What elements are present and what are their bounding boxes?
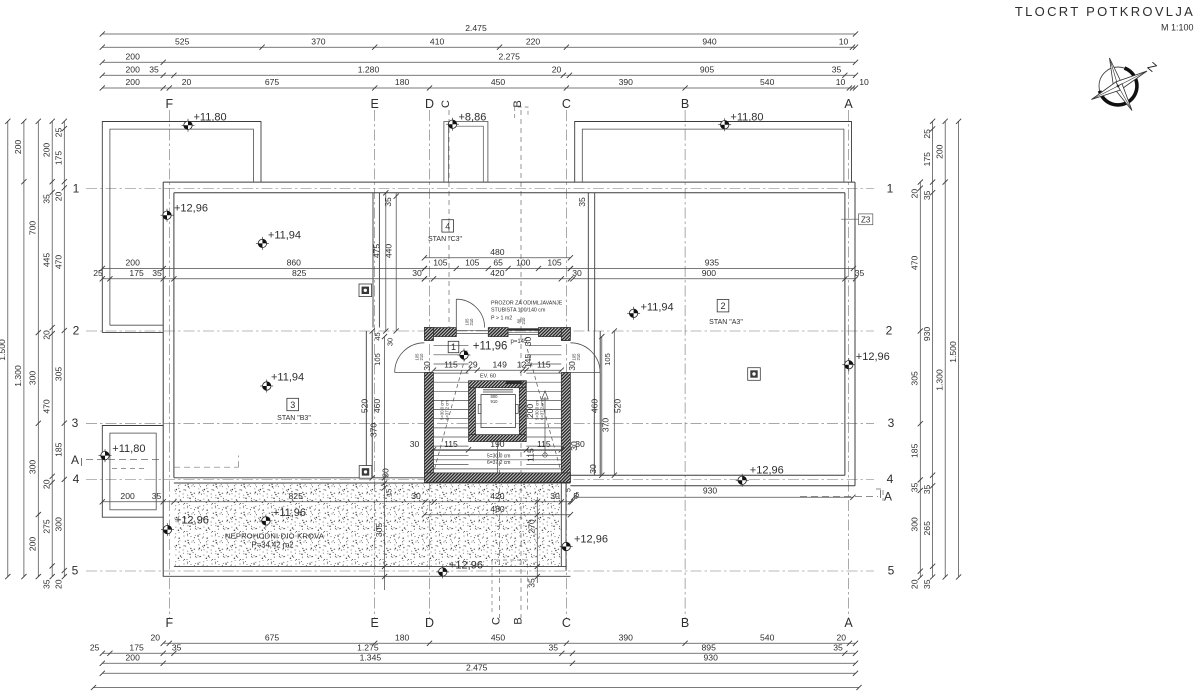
elevator counterweight bar bbox=[506, 381, 521, 384]
svg-text:NEPROHODNI DIO KROVA: NEPROHODNI DIO KROVA bbox=[225, 532, 325, 541]
svg-text:370: 370 bbox=[311, 36, 326, 46]
svg-text:E: E bbox=[371, 97, 379, 111]
hall dim row 115/29/149/12/145/115 bbox=[431, 359, 564, 372]
svg-text:1.275: 1.275 bbox=[357, 643, 379, 653]
svg-text:1: 1 bbox=[451, 342, 456, 352]
svg-text:470: 470 bbox=[910, 256, 920, 271]
small top dormer at axis C outer bbox=[444, 122, 488, 183]
roof access box symbol bbox=[359, 284, 372, 297]
svg-text:20: 20 bbox=[182, 77, 192, 87]
svg-text:20: 20 bbox=[837, 633, 847, 643]
window in core top wall (smoke vent) with jambs bbox=[455, 328, 457, 337]
svg-text:480: 480 bbox=[490, 247, 505, 257]
svg-text:C: C bbox=[440, 100, 452, 108]
svg-text:35: 35 bbox=[922, 190, 932, 200]
svg-text:35: 35 bbox=[41, 194, 51, 204]
elevator car guides bbox=[478, 405, 481, 414]
top-middle dormer outer outline bbox=[575, 122, 852, 183]
svg-text:D: D bbox=[425, 616, 434, 630]
svg-text:2: 2 bbox=[886, 324, 893, 338]
hall 1 label bbox=[448, 341, 459, 352]
svg-text:900: 900 bbox=[702, 268, 717, 278]
left dim chain 200/35/445/20/470/20/275/35 bbox=[41, 119, 54, 589]
svg-text:25: 25 bbox=[54, 128, 64, 138]
svg-text:35: 35 bbox=[922, 579, 932, 589]
elevation marker +12,96 bbox=[736, 465, 784, 487]
svg-text:390: 390 bbox=[619, 633, 634, 643]
svg-text:15: 15 bbox=[385, 489, 394, 497]
top dim chain row 200/20/675/180/450/390/540/10/10 bbox=[100, 77, 869, 90]
dim row 25/175/35/825 left bbox=[93, 268, 427, 281]
stippled NEPROHODNI DIO KROVA area bbox=[175, 484, 561, 566]
svg-text:+8,86: +8,86 bbox=[459, 112, 487, 124]
svg-text:450: 450 bbox=[491, 77, 506, 87]
svg-text:300: 300 bbox=[28, 460, 38, 475]
svg-text:10: 10 bbox=[836, 77, 846, 87]
top-left dormer inner outline bbox=[110, 129, 254, 182]
svg-text:200: 200 bbox=[28, 537, 38, 552]
svg-text:+11,96: +11,96 bbox=[273, 507, 306, 519]
roof access box symbol bbox=[748, 368, 761, 381]
svg-text:35: 35 bbox=[832, 65, 842, 75]
svg-text:4: 4 bbox=[445, 221, 450, 231]
svg-text:1.500: 1.500 bbox=[948, 341, 958, 363]
svg-text:200: 200 bbox=[126, 52, 141, 62]
partition wall right upper part bbox=[587, 193, 589, 331]
partition wall left lower part bbox=[365, 331, 367, 478]
left dim chain 25/175/20/470/305/185/300/20 bbox=[54, 119, 67, 589]
door swing arc into apartment 3 (left) bbox=[395, 343, 425, 373]
svg-text:25: 25 bbox=[93, 268, 103, 278]
svg-text:A: A bbox=[844, 616, 853, 630]
svg-text:6=37,2 cm: 6=37,2 cm bbox=[540, 400, 545, 420]
svg-text:E: E bbox=[371, 616, 379, 630]
svg-text:25: 25 bbox=[922, 129, 932, 139]
svg-text:105: 105 bbox=[373, 353, 382, 366]
svg-text:30: 30 bbox=[381, 468, 391, 478]
svg-text:C: C bbox=[562, 616, 571, 630]
svg-text:B: B bbox=[512, 617, 524, 624]
svg-text:P=34,42 m2: P=34,42 m2 bbox=[251, 541, 293, 550]
svg-text:A: A bbox=[844, 97, 853, 111]
section line A left bbox=[86, 459, 160, 461]
svg-text:200: 200 bbox=[41, 143, 51, 158]
vertical dim 460/370 left lower bbox=[384, 337, 386, 478]
svg-text:525: 525 bbox=[175, 36, 190, 46]
svg-text:35: 35 bbox=[577, 197, 587, 207]
svg-text:P > 1 m2: P > 1 m2 bbox=[491, 316, 512, 322]
svg-text:190: 190 bbox=[490, 439, 505, 449]
svg-text:420: 420 bbox=[490, 491, 505, 501]
svg-text:+11,80: +11,80 bbox=[730, 111, 763, 123]
svg-text:825: 825 bbox=[289, 491, 304, 501]
left side dormer inner outline bbox=[110, 433, 156, 510]
svg-text:+12,96: +12,96 bbox=[174, 203, 208, 215]
svg-text:930: 930 bbox=[922, 327, 932, 342]
svg-text:210: 210 bbox=[419, 353, 424, 361]
svg-text:105: 105 bbox=[547, 258, 562, 268]
svg-text:860: 860 bbox=[287, 258, 302, 268]
svg-text:+11,96: +11,96 bbox=[473, 340, 508, 352]
svg-text:PROZOR ZA ODIMLJAVANJE: PROZOR ZA ODIMLJAVANJE bbox=[491, 301, 563, 307]
elevation marker +11,94 bbox=[256, 230, 301, 250]
svg-text:35: 35 bbox=[152, 268, 162, 278]
left wall inner face bbox=[173, 193, 175, 478]
svg-text:370: 370 bbox=[600, 418, 610, 433]
svg-text:300: 300 bbox=[28, 371, 38, 386]
svg-text:480: 480 bbox=[490, 504, 505, 514]
roof terrace band top edge lines bbox=[174, 477, 561, 479]
svg-text:29: 29 bbox=[468, 359, 478, 369]
elevation marker +12,96 bbox=[161, 203, 208, 222]
svg-text:10: 10 bbox=[839, 36, 849, 46]
roof access box symbol bbox=[359, 466, 372, 479]
elevation marker +11,94 bbox=[627, 302, 674, 320]
stair cut line left flight (dashed) bbox=[435, 349, 468, 469]
svg-text:3: 3 bbox=[888, 416, 895, 430]
svg-text:20: 20 bbox=[151, 633, 161, 643]
right dim chain 20/470/305/185/35/300/20 bbox=[910, 180, 923, 590]
svg-text:390: 390 bbox=[619, 77, 634, 87]
svg-text:30: 30 bbox=[569, 441, 579, 451]
right wall outer face bbox=[854, 182, 856, 486]
door swing arc into apartment 2 (right) bbox=[570, 343, 600, 373]
svg-text:30: 30 bbox=[550, 491, 560, 501]
dim 930 bottom right part bbox=[574, 496, 853, 498]
svg-text:35: 35 bbox=[910, 483, 920, 493]
svg-text:175: 175 bbox=[922, 152, 932, 167]
window mark Z3 bbox=[859, 214, 873, 225]
svg-text:940: 940 bbox=[702, 36, 717, 46]
svg-text:+11,94: +11,94 bbox=[641, 302, 674, 314]
apartment 4 label bbox=[442, 220, 454, 232]
svg-text:520: 520 bbox=[360, 399, 370, 414]
dim row 200/860 left bbox=[100, 258, 427, 271]
svg-text:910: 910 bbox=[491, 399, 499, 404]
svg-text:20: 20 bbox=[54, 192, 64, 202]
svg-text:B: B bbox=[681, 616, 689, 630]
svg-text:115: 115 bbox=[526, 448, 536, 462]
svg-text:210: 210 bbox=[521, 317, 526, 325]
svg-text:A: A bbox=[71, 453, 79, 467]
svg-text:35: 35 bbox=[152, 491, 162, 501]
stair mid landing division bbox=[496, 442, 498, 473]
svg-text:STAN "C3": STAN "C3" bbox=[428, 236, 463, 243]
top dim chain total 2.475 bbox=[100, 23, 858, 36]
svg-text:D: D bbox=[425, 97, 434, 111]
vertical dim 460/520 right of core bbox=[601, 337, 603, 476]
elevation marker +12,96 bbox=[560, 534, 608, 554]
svg-text:115: 115 bbox=[537, 359, 551, 369]
dim 480 over core bbox=[422, 247, 573, 260]
bottom frame line bbox=[94, 687, 860, 689]
vertical dim 440 left bbox=[395, 193, 397, 331]
svg-text:180: 180 bbox=[395, 633, 410, 643]
vertical dim 305/15 in band bbox=[384, 478, 386, 590]
svg-text:175: 175 bbox=[129, 268, 144, 278]
svg-text:200: 200 bbox=[934, 144, 944, 159]
svg-text:30: 30 bbox=[412, 268, 422, 278]
svg-text:450: 450 bbox=[491, 633, 506, 643]
svg-text:470: 470 bbox=[41, 399, 51, 414]
bottom dim chain 20/675/180/450/390/540/20 bbox=[151, 633, 859, 646]
secondary axis B (dashed) bbox=[520, 110, 522, 618]
svg-text:30: 30 bbox=[588, 464, 598, 474]
svg-text:C: C bbox=[562, 97, 571, 111]
apartment 2 label bbox=[717, 300, 729, 312]
svg-text:460: 460 bbox=[372, 399, 382, 414]
right dim chain 200/1.300 bbox=[934, 119, 947, 580]
door opening jambs core left wall bbox=[424, 340, 433, 342]
svg-text:+12,96: +12,96 bbox=[750, 465, 784, 477]
svg-text:+12,96: +12,96 bbox=[449, 560, 483, 572]
svg-text:675: 675 bbox=[265, 633, 280, 643]
svg-text:185: 185 bbox=[910, 443, 920, 458]
svg-text:F: F bbox=[165, 97, 173, 111]
svg-text:265: 265 bbox=[922, 521, 932, 536]
dim row 900/35 right bbox=[570, 268, 864, 281]
svg-text:200: 200 bbox=[126, 65, 141, 75]
elevation marker +11,80 bbox=[182, 112, 227, 132]
svg-text:175: 175 bbox=[129, 643, 144, 653]
section line A right bbox=[800, 496, 878, 498]
svg-text:105: 105 bbox=[603, 353, 612, 366]
svg-text:4: 4 bbox=[73, 472, 80, 486]
svg-text:475: 475 bbox=[371, 244, 381, 259]
svg-text:STUBISTA 100/140 cm: STUBISTA 100/140 cm bbox=[491, 308, 546, 314]
top dim chain row 525/370/410/220/940/10 bbox=[100, 36, 858, 49]
left dim chain total 1.500 bbox=[0, 119, 10, 580]
svg-text:20: 20 bbox=[910, 579, 920, 589]
svg-text:2: 2 bbox=[73, 324, 80, 338]
svg-text:30: 30 bbox=[572, 268, 582, 278]
svg-text:300: 300 bbox=[54, 517, 64, 532]
svg-text:175: 175 bbox=[54, 151, 64, 166]
svg-text:20: 20 bbox=[910, 189, 920, 199]
dashed dormer outline below plan at C/B bbox=[492, 560, 528, 612]
svg-text:+12,96: +12,96 bbox=[574, 534, 608, 546]
svg-text:A: A bbox=[884, 490, 892, 504]
svg-text:20: 20 bbox=[41, 479, 51, 489]
top-left dormer outer outline bbox=[102, 122, 261, 183]
svg-text:540: 540 bbox=[760, 77, 775, 87]
svg-text:115: 115 bbox=[444, 439, 458, 449]
svg-text:+11,80: +11,80 bbox=[194, 112, 227, 124]
svg-text:35: 35 bbox=[549, 643, 559, 653]
stair cut line right flight (dashed) bbox=[527, 349, 560, 469]
section A trace through dormer (dashed) bbox=[112, 468, 146, 470]
door swing arc into apartment 4 bbox=[456, 299, 484, 327]
svg-text:935: 935 bbox=[705, 258, 720, 268]
dashed skylight outline below top letters bbox=[515, 107, 528, 118]
svg-text:35: 35 bbox=[833, 643, 843, 653]
svg-text:905: 905 bbox=[700, 65, 715, 75]
svg-text:270: 270 bbox=[527, 519, 537, 534]
roof terrace band right edge bbox=[560, 478, 562, 567]
svg-text:45: 45 bbox=[373, 332, 382, 340]
svg-text:930: 930 bbox=[703, 486, 718, 496]
window 2 in core top wall with dark lintel bbox=[508, 328, 538, 330]
right dim chain total 1.500 bbox=[948, 119, 961, 580]
svg-text:895: 895 bbox=[702, 643, 717, 653]
svg-text:30: 30 bbox=[410, 439, 420, 449]
svg-text:149: 149 bbox=[493, 359, 508, 369]
svg-text:145: 145 bbox=[523, 354, 533, 369]
svg-text:1.300: 1.300 bbox=[13, 365, 23, 387]
elevation marker +8,86 bbox=[446, 112, 486, 131]
north arrow compass bbox=[1092, 58, 1160, 111]
left dim chain 200/1.300 bbox=[13, 119, 26, 580]
stair treads right flight bbox=[526, 346, 561, 465]
svg-text:35: 35 bbox=[149, 65, 159, 75]
svg-text:210: 210 bbox=[576, 353, 581, 361]
elevation marker +12,96 bbox=[842, 351, 889, 371]
section A trace jog in apartment 3 (dashed) bbox=[174, 466, 239, 468]
bottom dim chain 25/175/35/1.275/35/895/35 bbox=[90, 643, 858, 656]
horizontal grid axes 1-5 (dash-dot) bbox=[86, 188, 874, 190]
svg-text:B: B bbox=[681, 97, 689, 111]
vertical grid axes F E D C B A (dash-dot) bbox=[168, 110, 170, 618]
svg-text:+11,94: +11,94 bbox=[271, 372, 304, 384]
svg-text:1.500: 1.500 bbox=[0, 339, 7, 361]
apartment 3 label bbox=[287, 398, 299, 410]
bottom wall right part inner face bbox=[570, 474, 845, 476]
svg-text:+12,96: +12,96 bbox=[175, 515, 209, 527]
svg-text:1.280: 1.280 bbox=[358, 65, 380, 75]
svg-text:440: 440 bbox=[384, 244, 394, 259]
elevation marker bbox=[458, 349, 471, 362]
stair treads left flight bbox=[434, 346, 469, 465]
svg-text:35: 35 bbox=[527, 578, 537, 588]
svg-text:20: 20 bbox=[41, 330, 51, 340]
svg-text:305: 305 bbox=[910, 371, 920, 386]
left dim chain 700/300/300/200 bbox=[28, 119, 41, 580]
svg-text:20: 20 bbox=[54, 579, 64, 589]
svg-text:420: 420 bbox=[490, 268, 505, 278]
svg-text:105: 105 bbox=[433, 258, 448, 268]
main top wall outer face bbox=[163, 181, 855, 183]
elevation marker +11,80 bbox=[99, 443, 146, 462]
svg-text:2.475: 2.475 bbox=[465, 23, 487, 33]
roof terrace band bottom edge bbox=[174, 565, 566, 567]
right wall inner face bbox=[844, 193, 846, 475]
bottom dim chain 200/1.345/930 bbox=[100, 653, 858, 666]
svg-text:35: 35 bbox=[41, 579, 51, 589]
svg-text:35: 35 bbox=[172, 643, 182, 653]
vertical dim 475 left bbox=[385, 193, 387, 331]
svg-text:Z3: Z3 bbox=[861, 215, 871, 224]
svg-text:5: 5 bbox=[72, 564, 79, 578]
svg-text:410: 410 bbox=[430, 36, 445, 46]
stair walking line with arrow bbox=[544, 397, 546, 455]
svg-text:1.345: 1.345 bbox=[360, 653, 382, 663]
svg-text:EV. 60: EV. 60 bbox=[480, 374, 496, 380]
dim row under shaft 30/115/190/115/30 bbox=[410, 439, 585, 452]
left lower-roof strip inner bbox=[109, 182, 111, 325]
svg-text:105: 105 bbox=[465, 258, 480, 268]
svg-text:700: 700 bbox=[28, 221, 38, 236]
stair treads bottom flight bbox=[434, 451, 562, 469]
left wall outer face bbox=[162, 182, 164, 576]
svg-text:210: 210 bbox=[469, 318, 474, 326]
svg-text:35: 35 bbox=[922, 485, 932, 495]
svg-text:930: 930 bbox=[704, 653, 719, 663]
svg-text:35: 35 bbox=[383, 197, 393, 207]
svg-text:6=37,2 cm: 6=37,2 cm bbox=[445, 400, 450, 420]
left lower-roof strip outer bbox=[101, 182, 103, 333]
svg-text:65: 65 bbox=[493, 258, 503, 268]
svg-text:370: 370 bbox=[369, 423, 379, 438]
svg-text:460: 460 bbox=[589, 399, 599, 414]
svg-text:275: 275 bbox=[41, 519, 51, 534]
secondary axis C bottom (dashed) bbox=[499, 452, 501, 618]
svg-text:C: C bbox=[491, 617, 503, 625]
top dim chain row 200/2.275 bbox=[100, 52, 858, 65]
bottom wall right part outer face bbox=[570, 485, 855, 487]
svg-text:30: 30 bbox=[567, 361, 577, 371]
svg-text:2.475: 2.475 bbox=[466, 663, 488, 673]
svg-text:+11,94: +11,94 bbox=[268, 230, 301, 242]
elevation marker +12,96 bbox=[436, 560, 483, 579]
vertical dim 270/35 right of band bbox=[536, 497, 538, 583]
svg-text:30: 30 bbox=[386, 338, 395, 346]
svg-text:185: 185 bbox=[54, 442, 64, 457]
svg-text:470: 470 bbox=[54, 255, 64, 270]
svg-text:540: 540 bbox=[760, 633, 775, 643]
dim row 935 right bbox=[568, 258, 856, 271]
svg-text:p=145: p=145 bbox=[511, 339, 529, 345]
svg-text:1.300: 1.300 bbox=[934, 369, 944, 391]
partition wall on axis E upper part bbox=[372, 193, 374, 328]
dim row 200/35/825/30/420/30/5 through terrace band bbox=[100, 491, 579, 504]
main top wall inner face bbox=[174, 192, 845, 194]
svg-text:200: 200 bbox=[126, 653, 141, 663]
svg-text:200: 200 bbox=[13, 140, 23, 155]
svg-text:1: 1 bbox=[887, 182, 894, 196]
svg-text:TLOCRT POTKROVLJA: TLOCRT POTKROVLJA bbox=[1015, 4, 1195, 19]
svg-text:M 1:100: M 1:100 bbox=[1161, 23, 1194, 33]
svg-text:4: 4 bbox=[887, 472, 894, 486]
bottom dim chain total 2.475 bbox=[100, 663, 858, 676]
svg-text:3: 3 bbox=[290, 400, 295, 410]
svg-text:F: F bbox=[165, 616, 173, 630]
svg-text:25: 25 bbox=[90, 643, 100, 653]
svg-text:200: 200 bbox=[126, 258, 141, 268]
left side dormer outer outline bbox=[102, 426, 163, 518]
secondary axis C top (dashed) bbox=[448, 110, 450, 330]
svg-text:520: 520 bbox=[613, 399, 623, 414]
elevation marker +12,96 bbox=[161, 515, 209, 537]
svg-text:5: 5 bbox=[888, 564, 895, 578]
svg-text:305: 305 bbox=[54, 367, 64, 382]
building bottom outer edge at grid5 bbox=[163, 575, 570, 577]
partition wall right lower part bbox=[593, 331, 595, 475]
right dim chain 35/930/35/265/35 bbox=[922, 119, 935, 589]
elevation marker +11,96 bbox=[259, 507, 306, 527]
svg-text:B: B bbox=[512, 100, 524, 107]
svg-text:5: 5 bbox=[566, 488, 573, 492]
dim row 105x5 over core bbox=[422, 258, 573, 271]
svg-text:305: 305 bbox=[374, 523, 384, 538]
svg-text:445: 445 bbox=[41, 253, 51, 268]
svg-text:+12,96: +12,96 bbox=[856, 351, 890, 363]
elevator shaft hatched walls bbox=[469, 381, 527, 442]
svg-text:30: 30 bbox=[411, 491, 421, 501]
dim row under core 480 bbox=[422, 504, 573, 517]
svg-text:675: 675 bbox=[265, 77, 280, 87]
svg-text:200: 200 bbox=[126, 77, 141, 87]
svg-text:6=37,2 cm: 6=37,2 cm bbox=[487, 460, 511, 466]
